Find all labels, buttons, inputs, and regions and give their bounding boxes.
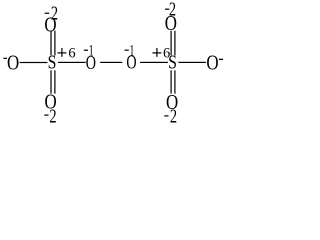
wire: double bond S1 to top-left O <box>50 31 51 56</box>
svg-text:O: O <box>7 51 19 75</box>
node: left terminal O superscript minus <box>3 58 7 59</box>
svg-text:2: 2 <box>170 106 177 126</box>
label -2 below bottom-right O (minus) <box>164 115 168 116</box>
wire: double bond S2 to top-right O <box>171 31 172 56</box>
svg-text:O: O <box>206 51 218 75</box>
label -2 above top-right O (minus) <box>165 9 169 10</box>
svg-text:6: 6 <box>68 46 75 62</box>
wire: double bond S1 to bottom-left O <box>50 70 51 93</box>
wire: single bond S2 to right terminal O <box>178 62 206 63</box>
svg-text:O: O <box>86 53 96 74</box>
label -2 above top-left O (minus) <box>45 13 50 14</box>
label -1 above bridging O1 (minus) <box>84 50 88 51</box>
svg-text:S: S <box>168 53 177 74</box>
label +6 oxidation state of S1 (plus sign) <box>57 52 66 53</box>
wire: double bond S2 to bottom-right O <box>171 70 172 93</box>
wire: single bond O2 to S2 <box>140 62 168 63</box>
label +6 oxidation state of S2 (plus sign) <box>152 52 161 53</box>
label -2 below bottom-left O (minus) <box>44 115 48 116</box>
label -1 above bridging O2 (minus) <box>125 50 129 51</box>
svg-text:2: 2 <box>49 106 56 126</box>
wire: single bond S1 to bridging O1 <box>58 62 86 63</box>
svg-text:O: O <box>126 52 136 73</box>
wire: single bond O1 to O2 (peroxide bond) <box>100 62 122 63</box>
node: right terminal O superscript minus <box>219 59 223 60</box>
wire: single bond O to S1 <box>20 62 48 63</box>
